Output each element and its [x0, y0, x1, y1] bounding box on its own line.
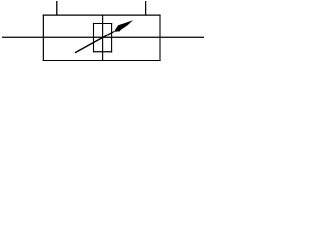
divider (internal vertical partition) — [102, 15, 104, 60]
resistor R1 body bottom edge — [93, 51, 112, 53]
resistor R1 body left edge — [93, 23, 95, 52]
outer box right edge — [159, 15, 161, 62]
resistor R1 body top edge — [93, 23, 112, 25]
wiper arrow head — [114, 20, 133, 32]
outer box left edge — [42, 15, 44, 62]
outer box top edge — [43, 14, 161, 16]
outer box bottom edge — [43, 60, 161, 62]
wiper arrow shaft flare — [105, 31, 116, 36]
wire (horizontal net through component) — [2, 36, 204, 38]
wiper arrow shaft — [75, 35, 107, 53]
pin 2 (right top stub) — [145, 1, 147, 15]
resistor R1 body right edge — [111, 23, 113, 52]
pin 1 (left top stub) — [56, 1, 58, 15]
